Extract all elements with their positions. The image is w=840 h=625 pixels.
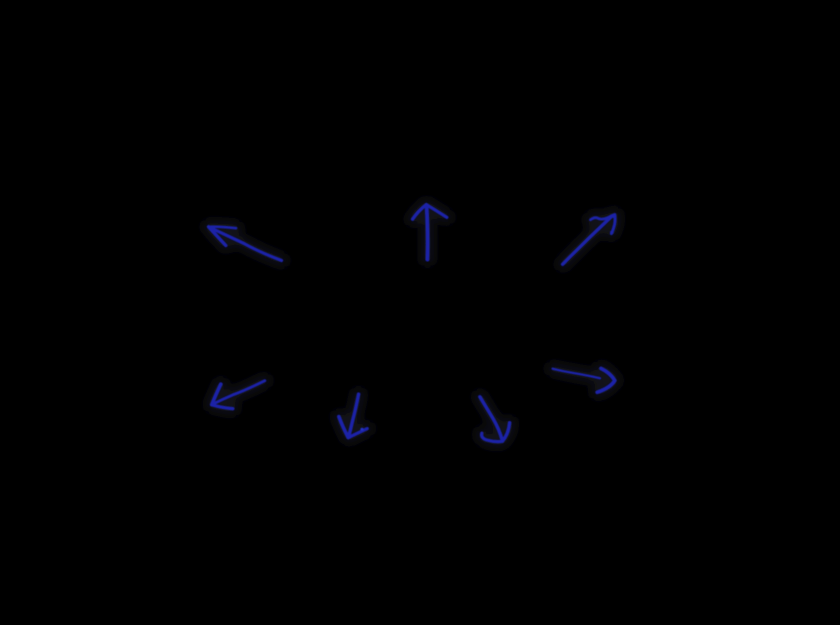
arrow down-left: shaft	[348, 394, 358, 437]
arrow upper-right: end blob	[610, 231, 614, 235]
arrow upper-left: lower barb	[209, 227, 226, 246]
arrow upper-right: shaft	[563, 217, 612, 265]
arrow right: chevron head	[597, 368, 615, 392]
arrow upper-right: left barb (wavy)	[591, 216, 613, 220]
faint jpeg-block halo behind strokes	[209, 205, 616, 442]
arrow down-left: right barb	[348, 429, 367, 438]
arrow upper-right: down barb	[611, 215, 615, 234]
arrow upper-left: top barb	[209, 227, 236, 228]
arrow right: shaft (wavy, lighter)	[553, 369, 600, 379]
arrow left-down: shaft	[213, 381, 265, 405]
arrow down-right: shaft	[480, 397, 503, 441]
arrow left-down: bottom barb	[212, 405, 233, 409]
arrow upper-left: shaft	[210, 227, 282, 260]
arrow down-left: left barb	[339, 417, 348, 438]
arrow left-down: vertical barb	[212, 384, 221, 404]
arrow up: right barb	[427, 205, 447, 218]
arrow down-left: bright dot	[360, 428, 363, 431]
arrow upper-right: tip blob	[612, 214, 617, 219]
arrow up: shaft	[427, 206, 428, 260]
arrow up: left barb	[413, 205, 427, 220]
arrow down-right: right barb	[502, 423, 509, 441]
arrow down-right: left barb (hooked)	[482, 433, 502, 441]
